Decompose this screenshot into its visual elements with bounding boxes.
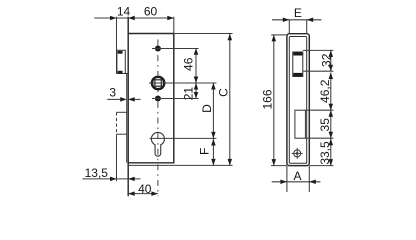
- dimension D: [212, 83, 214, 138]
- faceplate front edge (solid / dashed / solid): [116, 17, 118, 182]
- case front inner line: [126, 74, 128, 163]
- deadbolt window: [295, 110, 306, 138]
- bottom extension right: [309, 165, 333, 167]
- latch box: [117, 50, 129, 73]
- dimension 13,5: [82, 178, 140, 180]
- dimension A: [272, 166, 321, 192]
- euro cylinder hole: [151, 132, 164, 156]
- dimension 46: [195, 48, 197, 83]
- svg-text:D: D: [200, 104, 214, 113]
- dimension 32: [330, 50, 332, 71]
- dimension 166: [273, 35, 275, 166]
- dimension 40: [128, 193, 158, 195]
- side latch box: [293, 52, 303, 77]
- dimension 35: [330, 110, 332, 138]
- dimension 21: [195, 83, 197, 99]
- svg-text:13,5: 13,5: [85, 166, 109, 180]
- top extension left: [271, 34, 287, 36]
- dimension C: [229, 34, 231, 166]
- svg-text:F: F: [197, 148, 211, 155]
- latch tick top: [118, 51, 123, 54]
- body left edge: [127, 17, 129, 197]
- svg-text:32: 32: [320, 53, 334, 67]
- side latch tick bottom: [293, 73, 302, 76]
- svg-text:3: 3: [109, 86, 116, 100]
- side latch tick top: [293, 52, 302, 55]
- dimension F: [212, 138, 214, 165]
- faceplate jog lower: [117, 133, 127, 135]
- svg-text:14: 14: [117, 5, 131, 19]
- svg-text:E: E: [294, 6, 302, 20]
- svg-text:A: A: [293, 169, 301, 183]
- lower mounting hole: [155, 96, 161, 102]
- profile outer: [287, 34, 309, 166]
- svg-text:40: 40: [138, 182, 152, 196]
- arrow 14 left: [110, 16, 117, 21]
- bottom reference line: [128, 164, 232, 166]
- spindle follower: [151, 76, 166, 91]
- dimension E: [272, 19, 322, 21]
- dimension 3: [107, 98, 140, 100]
- arrow 14 right / 60 left: [128, 16, 135, 21]
- faceplate jog upper: [117, 111, 127, 113]
- profile inner: [289, 37, 306, 164]
- top edge extension to C: [174, 33, 233, 35]
- latch tick bottom: [118, 71, 123, 74]
- arrow 60 right: [167, 16, 174, 21]
- lock body outline: [128, 34, 174, 163]
- svg-text:C: C: [217, 88, 231, 97]
- deadbolt window bottom extension: [305, 137, 333, 139]
- lower hole center tick / extension: [152, 98, 199, 100]
- upper hole center tick / extension: [152, 48, 199, 50]
- vertical center line: [157, 40, 159, 197]
- svg-text:46: 46: [181, 57, 195, 71]
- deadbolt window top extension: [305, 109, 333, 111]
- dimension 33,5: [330, 138, 332, 165]
- spindle center tick / extension to D: [149, 82, 216, 84]
- svg-text:21: 21: [182, 87, 196, 101]
- screw hole: [294, 150, 301, 157]
- svg-text:33,5: 33,5: [318, 141, 332, 165]
- svg-text:60: 60: [144, 5, 158, 19]
- latch window bottom extension: [303, 70, 333, 72]
- dimension line top (14 / 60): [94, 17, 174, 34]
- svg-text:166: 166: [261, 89, 275, 109]
- svg-text:46,2: 46,2: [318, 79, 332, 103]
- upper mounting hole: [155, 46, 161, 52]
- cylinder center tick / extension to F: [150, 137, 217, 139]
- dimension 46,2: [330, 73, 332, 111]
- svg-text:35: 35: [318, 118, 332, 132]
- bottom extension left: [271, 165, 287, 167]
- latch window top extension: [303, 49, 334, 51]
